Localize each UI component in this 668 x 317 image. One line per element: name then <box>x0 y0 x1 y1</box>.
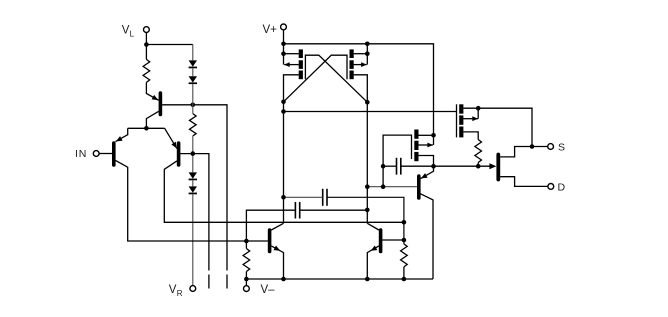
mosfet M3 body arrow <box>427 143 433 148</box>
svg-text:L: L <box>130 29 135 38</box>
junction S node <box>530 144 535 149</box>
jfet J1 gate arrow <box>489 163 496 169</box>
transistor Q1 bar <box>159 93 163 115</box>
wire Q1 base to line down <box>162 105 227 271</box>
junction base line mid node <box>381 184 386 189</box>
wire M1 source lead <box>284 75 299 102</box>
wire V+ right stub <box>366 44 368 65</box>
wire Q6 emitter <box>421 166 434 178</box>
wire M2 drain lead <box>354 53 368 55</box>
label VR <box>169 284 183 298</box>
wire J1 gate lead <box>434 165 491 167</box>
wire Q4 base <box>246 240 268 242</box>
transistor Q4 bar <box>268 230 272 252</box>
junction V+ rail corner <box>281 42 286 47</box>
resistor R5 <box>475 140 482 163</box>
svg-text:IN: IN <box>75 148 87 160</box>
wire M3 drain lead <box>418 134 433 136</box>
svg-text:R: R <box>177 289 183 298</box>
wire Q3 emitter <box>116 128 128 141</box>
wire dash continuation right <box>226 275 228 289</box>
mosfet M1 body arrow <box>284 62 290 67</box>
junction M4 drain node <box>476 106 481 111</box>
mosfet M4 channel <box>459 104 463 137</box>
terminal IN <box>93 151 99 157</box>
junction pair rail center <box>144 126 149 131</box>
wire M2 source lead <box>354 75 368 102</box>
junction R5 gate node <box>476 164 481 169</box>
wire base line right node to Q6 <box>367 186 417 188</box>
wire M4 source lead <box>463 132 478 140</box>
junction M2 drain node <box>365 51 370 56</box>
svg-text:D: D <box>558 182 566 194</box>
label VL <box>122 24 135 38</box>
wire R5 to gate line <box>477 163 479 167</box>
wire Q2 emitter <box>165 128 177 148</box>
wire VL stem <box>145 33 147 60</box>
wire C3 right lead <box>401 165 434 167</box>
terminal Vminus <box>244 286 250 292</box>
mosfet M2 channel <box>350 49 354 79</box>
junction Q2 base node <box>191 151 196 156</box>
terminal VR <box>190 286 196 292</box>
terminal V+ <box>281 24 287 30</box>
junction Vminus node <box>244 277 249 282</box>
wire right flipflop vertical <box>366 102 368 223</box>
junction rail R4 <box>402 277 407 282</box>
wire left flipflop vertical <box>283 102 285 224</box>
wire M3 body lead <box>418 144 433 146</box>
resistor R1 <box>143 59 150 82</box>
wire M3 gate <box>383 135 411 187</box>
wire input pair emitter rail <box>128 127 165 129</box>
svg-text:V: V <box>169 284 177 296</box>
svg-text:V: V <box>122 24 130 36</box>
diode D1 <box>189 60 197 68</box>
wire M1 drain lead <box>284 53 299 55</box>
svg-text:S: S <box>558 142 565 154</box>
junction rail Q5 emitter <box>365 277 370 282</box>
wire Q5 base <box>382 239 404 241</box>
wire C3 left lead <box>383 165 396 167</box>
junction gate bus node <box>281 109 286 114</box>
wire Q6 collector <box>421 194 434 279</box>
wire dash continuation left <box>208 275 210 289</box>
wire C2 left lead <box>246 210 295 248</box>
wire M4 body stub <box>477 108 479 119</box>
wire C2 right lead <box>300 209 368 211</box>
wire J1 top lead to S <box>500 147 548 157</box>
wire Q2 base <box>180 154 209 271</box>
mosfet M4 gate line <box>456 104 458 137</box>
junction right flipflop node top <box>365 100 370 105</box>
junction left flipflop node top <box>281 100 286 105</box>
mosfet M2 body arrow <box>361 62 367 67</box>
wire R1 to Q1 emitter <box>146 82 158 100</box>
junction Q1 base node <box>191 103 196 108</box>
terminal S <box>548 144 554 150</box>
transistor Q3 bar <box>112 143 116 165</box>
transistor Q1 emitter arrow <box>152 95 160 103</box>
mosfet M3 channel <box>414 130 418 162</box>
wire bottom rail <box>246 278 433 280</box>
capacitor C2 <box>295 202 299 219</box>
resistor R3 <box>243 249 250 272</box>
wire VR line segments <box>192 45 194 286</box>
svg-text:V+: V+ <box>263 24 278 36</box>
transistor Q3 emitter arrow <box>115 136 123 144</box>
wire M2 body lead <box>354 64 367 66</box>
resistor R4 <box>401 244 408 267</box>
wire V+ rail <box>284 44 434 145</box>
junction M3 drain node <box>431 133 436 138</box>
transistor Q6 emitter arrow <box>420 173 428 181</box>
junction C2 right node <box>365 208 370 213</box>
junction base line right node <box>365 184 370 189</box>
wire V+ stem <box>283 30 285 65</box>
wire Q3 collector <box>116 160 247 241</box>
junction C1 left node <box>281 195 286 200</box>
junction M1 drain node <box>281 51 286 56</box>
diode D3 <box>189 172 197 180</box>
junction M3 source node <box>431 164 436 169</box>
wire C1 right lead <box>327 197 404 244</box>
wire Q4 emitter <box>271 246 283 279</box>
mosfet M4 body arrow <box>472 116 478 121</box>
wire IN to Q3 base <box>99 153 112 155</box>
wire R3 to Vminus <box>245 272 247 286</box>
junction rail M2 node <box>365 42 370 47</box>
terminal VL <box>144 27 150 33</box>
capacitor C1 <box>323 189 327 206</box>
wire M4 body lead <box>463 118 478 120</box>
junction C3 left node <box>381 164 386 169</box>
wire C1 left lead <box>284 196 323 198</box>
junction rail Q4 emitter <box>281 277 286 282</box>
jfet J1 bar <box>496 155 500 180</box>
wire gate bus to M4 <box>284 111 457 113</box>
diode D2 <box>189 76 197 84</box>
wire Q4 collector <box>271 223 283 230</box>
junction Q2 collector to Q5 base node <box>402 220 407 225</box>
wire M4 drain lead to S node <box>463 108 532 146</box>
wire Q5 emitter <box>367 246 379 279</box>
junction Q4 base node <box>244 239 249 244</box>
wire VL node to VR line <box>146 44 192 46</box>
transistor Q4 emitter arrow <box>274 246 282 254</box>
diode D4 <box>189 186 197 194</box>
transistor Q2 emitter arrow <box>171 142 179 150</box>
mosfet M1 channel <box>299 49 303 79</box>
wire M2 gate cross-couple <box>284 55 348 102</box>
wire M3 source lead <box>418 156 433 167</box>
transistor Q5 emitter arrow <box>369 246 377 254</box>
transistor Q6 bar <box>417 176 421 198</box>
wire Q5 collector <box>367 223 379 230</box>
terminal D <box>548 184 554 190</box>
resistor R2 <box>190 114 197 136</box>
wire Q2 collector <box>164 161 404 222</box>
wire J1 bottom lead to D <box>500 177 548 187</box>
wire M1 gate cross-couple <box>305 55 367 102</box>
junction VL node <box>144 42 149 47</box>
wire M1 body lead <box>284 64 299 66</box>
transistor Q2 bar <box>177 143 181 165</box>
wire Q1 collector <box>146 111 158 128</box>
wire R4 to rail <box>403 267 405 279</box>
svg-text:V–: V– <box>261 284 276 296</box>
capacitor C3 <box>397 158 401 175</box>
transistor Q5 bar <box>379 230 383 252</box>
junction Q5 base node <box>402 238 407 243</box>
